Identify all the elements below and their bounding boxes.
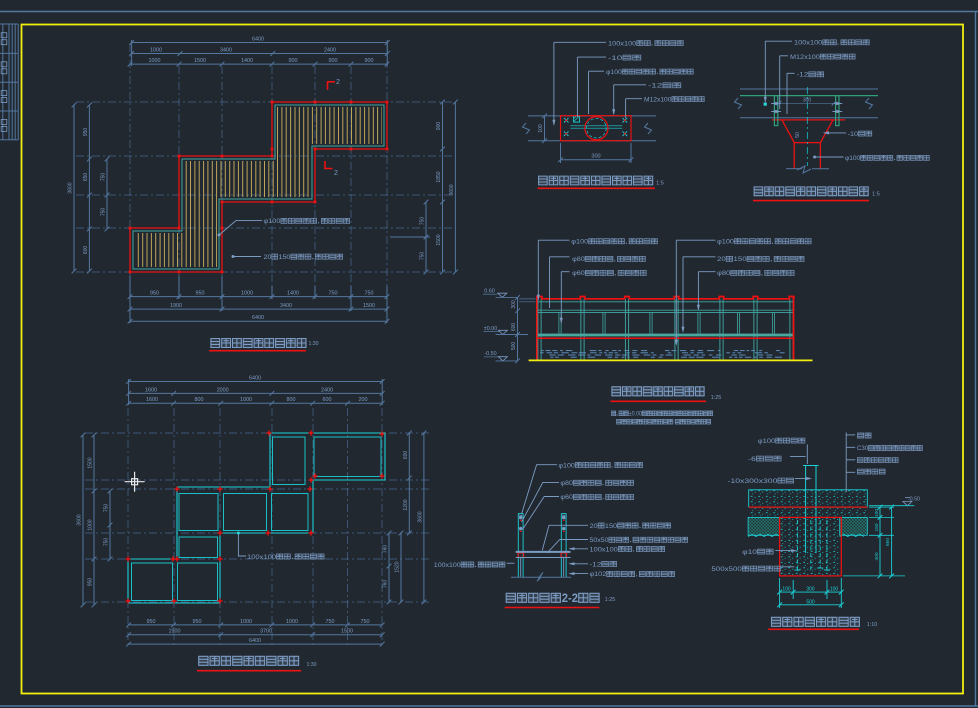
bridge deck plank band (537, 334, 794, 337)
svg-text:950: 950 (83, 128, 89, 137)
bridge red outline (537, 297, 794, 361)
svg-text:760: 760 (383, 580, 389, 589)
detail-elev title (754, 187, 868, 196)
svg-text:3600: 3600 (77, 514, 83, 525)
detail-plan pipe circle (585, 117, 608, 140)
plank hatch of deck (134, 100, 382, 274)
svg-text:±0.00: ±0.00 (629, 411, 642, 417)
svg-text:900: 900 (436, 122, 442, 131)
foundation label F2 (748, 456, 781, 463)
section title (506, 593, 599, 605)
svg-text:750: 750 (104, 538, 110, 547)
svg-text:1520: 1520 (395, 561, 401, 572)
svg-text:φ100: φ100 (717, 239, 734, 246)
foundation title (772, 617, 860, 626)
plan2 bottom dimensions (129, 624, 383, 626)
plan2 beam cells (273, 437, 306, 485)
svg-text:900: 900 (365, 58, 374, 64)
detail-plan break marks (523, 123, 530, 134)
svg-text:900: 900 (329, 58, 338, 64)
deck outline (red) (130, 102, 387, 272)
svg-text:800: 800 (195, 397, 204, 403)
svg-text:0.60: 0.60 (484, 288, 495, 294)
svg-text:φ100: φ100 (264, 218, 281, 225)
svg-text:500: 500 (511, 342, 517, 351)
svg-text:750: 750 (101, 208, 107, 217)
elevation note line2 (617, 419, 711, 424)
detail-plan label5 (644, 96, 704, 103)
svg-text:φ80: φ80 (572, 256, 585, 263)
svg-text:1500: 1500 (88, 457, 94, 468)
foundation underline (768, 628, 859, 630)
plan2 grid centerlines (127, 408, 129, 648)
foundation label F1 (758, 438, 805, 445)
svg-text:950: 950 (147, 619, 156, 625)
detail-plan bolts (564, 118, 569, 123)
svg-text:1:30: 1:30 (306, 662, 316, 668)
svg-text:±0.00: ±0.00 (484, 326, 497, 332)
svg-text:1200: 1200 (403, 499, 409, 510)
detail-elev plate left (green) (774, 96, 777, 126)
svg-text:3600: 3600 (68, 182, 74, 193)
foundation label F7 (857, 469, 885, 474)
svg-text:950: 950 (196, 291, 205, 297)
svg-text:20: 20 (717, 256, 726, 263)
svg-text:750: 750 (420, 252, 426, 261)
plan label text 1 (264, 218, 350, 225)
foundation gravel left (748, 517, 780, 535)
svg-text:150: 150 (734, 256, 747, 263)
svg-text:750: 750 (326, 619, 335, 625)
elevation level dim column (517, 297, 519, 361)
svg-text:1600: 1600 (146, 397, 158, 403)
elev label L3 (572, 270, 646, 277)
svg-text:750: 750 (420, 217, 426, 226)
svg-text:φ100: φ100 (558, 462, 575, 469)
section label5 (590, 537, 688, 544)
svg-text:750: 750 (101, 173, 107, 182)
detail-elev beam lines (740, 88, 878, 90)
foundation label F4 (858, 433, 872, 438)
svg-text:6400: 6400 (252, 37, 264, 43)
svg-text:-10x300x300: -10x300x300 (728, 478, 778, 485)
svg-text:1500: 1500 (436, 234, 442, 245)
foundation rebar (796, 520, 798, 570)
section label7 (590, 561, 617, 568)
elev label R3 (717, 270, 794, 277)
svg-text:750: 750 (365, 291, 374, 297)
detail-elev bolts (771, 103, 781, 105)
svg-text:150: 150 (605, 523, 618, 530)
detail-elev label4 (848, 131, 872, 138)
svg-text:100: 100 (830, 587, 839, 593)
svg-text:750: 750 (329, 291, 338, 297)
section mark 2 upper (328, 82, 336, 90)
plan title underline (209, 350, 306, 352)
section label8 (590, 571, 675, 578)
plan grid centerlines (178, 66, 180, 299)
foundation label F8 (742, 549, 773, 556)
svg-text:100: 100 (874, 509, 880, 517)
svg-text:50: 50 (795, 132, 801, 138)
svg-text:3700: 3700 (260, 629, 272, 635)
plan2 left dimensions (82, 435, 84, 605)
elev label L2 (572, 256, 645, 263)
bridge balusters (558, 312, 560, 333)
detail-plan red frame (561, 116, 632, 141)
right viewport line (975, 12, 977, 707)
svg-text:650: 650 (885, 538, 891, 546)
svg-text:M12x100: M12x100 (790, 54, 820, 61)
svg-text:1:30: 1:30 (308, 341, 318, 347)
detail-elev label1 (794, 40, 869, 47)
svg-text:2000: 2000 (217, 387, 229, 393)
svg-text:1000: 1000 (240, 619, 252, 625)
svg-text:1500: 1500 (363, 303, 375, 309)
svg-text:1500: 1500 (341, 629, 353, 635)
svg-text:1000: 1000 (150, 48, 162, 54)
svg-text:φ80: φ80 (717, 270, 731, 277)
elev label L1 (571, 239, 657, 246)
foundation block (780, 517, 842, 576)
svg-text:φ100: φ100 (845, 155, 861, 162)
svg-text:φ10: φ10 (742, 549, 757, 556)
section label6 (590, 546, 665, 553)
detail-elev pipe (red) (793, 143, 795, 169)
section underline (505, 607, 600, 609)
detail-elev plate right (green) (836, 96, 839, 126)
svg-text:1850: 1850 (436, 171, 442, 182)
svg-text:150: 150 (874, 523, 880, 531)
section label2 (560, 480, 633, 487)
svg-text:3600: 3600 (449, 184, 455, 195)
svg-text:-12: -12 (590, 561, 602, 568)
svg-text:1400: 1400 (241, 58, 253, 64)
svg-text:600: 600 (511, 323, 517, 332)
svg-text:300: 300 (591, 154, 600, 160)
svg-text:-10: -10 (848, 131, 859, 138)
foundation right dims (879, 507, 881, 576)
svg-text:6400: 6400 (249, 638, 261, 644)
detail-elev break marks (735, 98, 742, 109)
svg-text:2400: 2400 (324, 48, 336, 54)
svg-text:1900: 1900 (170, 303, 182, 309)
svg-text:φ100: φ100 (758, 438, 776, 445)
svg-text:1000: 1000 (241, 291, 253, 297)
elevation title (612, 387, 704, 396)
svg-text:3600: 3600 (417, 511, 423, 522)
svg-text:M12x100: M12x100 (644, 96, 672, 103)
plan right dimensions (425, 202, 427, 272)
elevation underline (610, 400, 706, 402)
detail-plan title (539, 176, 653, 185)
svg-text:50x50: 50x50 (590, 537, 609, 544)
svg-text:2-2: 2-2 (562, 593, 578, 605)
top viewport line (0, 11, 978, 13)
foundation pipe (805, 466, 807, 554)
svg-text:500x500: 500x500 (711, 566, 742, 573)
svg-text:1000: 1000 (88, 519, 94, 530)
svg-text:φ60: φ60 (572, 270, 585, 277)
svg-text:6400: 6400 (249, 376, 261, 382)
bridge deck red line (537, 337, 794, 339)
svg-text:-12: -12 (797, 72, 809, 79)
svg-text:950: 950 (150, 291, 159, 297)
svg-text:650: 650 (83, 173, 89, 182)
svg-text:400: 400 (874, 552, 880, 560)
section break line (511, 572, 571, 581)
svg-text:3400: 3400 (280, 303, 292, 309)
foundation water band (749, 490, 868, 507)
detail-plan steel plate (cyan) (570, 125, 622, 127)
foundation label F3 (728, 478, 794, 485)
ground yellow line (529, 359, 813, 361)
plan2 junction markers (125, 556, 130, 561)
bridge red cap right (789, 296, 793, 298)
detail-plan leaders (553, 42, 555, 124)
svg-text:750: 750 (361, 619, 370, 625)
deck corner markers (129, 227, 132, 230)
plan2 label leader (238, 533, 246, 556)
left title block table (0, 24, 18, 140)
detail-elev red bearing line (772, 119, 845, 121)
svg-text:C30: C30 (857, 445, 869, 452)
svg-text:φ102: φ102 (590, 571, 607, 578)
svg-text:-10: -10 (608, 55, 623, 62)
svg-text:2: 2 (336, 79, 340, 86)
svg-text:φ100: φ100 (606, 69, 622, 76)
detail-elev label2 (790, 54, 855, 61)
detail-plan underline (538, 187, 656, 189)
plan2 right dimensions (388, 533, 390, 602)
detail-plan gusset hatch block (574, 116, 580, 122)
svg-text:200: 200 (359, 397, 368, 403)
svg-text:2: 2 (334, 170, 338, 177)
detail-plan label1 (608, 40, 683, 47)
svg-text:1:5: 1:5 (872, 192, 880, 198)
detail-elev pipe break (797, 166, 811, 173)
svg-text:φ100: φ100 (571, 239, 588, 246)
svg-text:φ80: φ80 (560, 480, 573, 487)
section leaders (522, 465, 557, 514)
detail-plan label2 (608, 55, 641, 62)
detail-elev pipe centerline (806, 87, 808, 166)
svg-text:150: 150 (279, 254, 291, 261)
bottom viewport line (0, 705, 978, 707)
svg-text:300: 300 (803, 97, 812, 103)
plan label leader 1 (219, 221, 262, 235)
svg-text:1000: 1000 (149, 58, 161, 64)
svg-text:1600: 1600 (145, 387, 157, 393)
detail-elev label5 (845, 155, 929, 162)
svg-text:-0.50: -0.50 (484, 351, 496, 357)
plan title (211, 339, 306, 348)
svg-text:1500: 1500 (194, 58, 206, 64)
elevation leaders (538, 239, 569, 241)
detail-elev taper (red) (782, 120, 833, 143)
svg-text:1:25: 1:25 (605, 597, 616, 603)
svg-text:600: 600 (83, 246, 89, 255)
detail-elev underline (753, 200, 869, 202)
foundation label F9 (711, 566, 780, 573)
svg-text:600: 600 (403, 451, 409, 460)
svg-text:100x100: 100x100 (794, 40, 823, 47)
water dashes (541, 350, 544, 352)
detail-plan label4 (648, 83, 681, 90)
plan label text 2 (264, 254, 343, 261)
svg-text:3400: 3400 (220, 48, 232, 54)
plan2 underline (197, 670, 301, 672)
plan2 top dimensions (129, 381, 383, 383)
bridge red outline overlay (537, 297, 794, 361)
svg-text:300: 300 (511, 300, 517, 309)
section left label (434, 562, 505, 569)
plan label leader 2 (233, 256, 261, 258)
svg-text:300: 300 (806, 587, 815, 593)
section label1 (558, 462, 642, 469)
svg-text:1000: 1000 (286, 619, 298, 625)
plan2 title (199, 656, 299, 665)
section label4 (590, 523, 671, 530)
detail-elev label3 (797, 72, 824, 79)
svg-text:1000: 1000 (240, 397, 252, 403)
section label3 (560, 494, 633, 501)
plan left dimensions (73, 105, 75, 271)
svg-text:500: 500 (806, 599, 815, 605)
plan2 label (247, 554, 324, 561)
svg-text:900: 900 (289, 58, 298, 64)
section posts (517, 514, 519, 578)
detail-elev leaders (764, 41, 766, 101)
bridge rails (538, 301, 793, 303)
svg-text:20: 20 (264, 254, 272, 261)
svg-text:100x100: 100x100 (434, 562, 461, 569)
detail-plan dims (544, 116, 546, 141)
bridge posts (537, 299, 539, 339)
svg-text:1400: 1400 (287, 291, 299, 297)
foundation water top red line (749, 506, 868, 508)
svg-text:-12: -12 (648, 83, 663, 90)
mouse crosshair (125, 472, 145, 492)
svg-text:20: 20 (590, 523, 599, 530)
svg-text:750: 750 (104, 504, 110, 513)
foundation label F6 (857, 458, 898, 463)
detail-elev wale line (green) (740, 95, 878, 97)
svg-text:1900: 1900 (169, 629, 181, 635)
svg-text:1:5: 1:5 (656, 181, 664, 187)
svg-text:1:10: 1:10 (867, 622, 878, 628)
svg-text:6400: 6400 (252, 315, 264, 321)
svg-text:2400: 2400 (321, 387, 333, 393)
svg-text:φ60: φ60 (560, 494, 573, 501)
foundation bottom dims (779, 578, 781, 608)
svg-text:100: 100 (782, 587, 791, 593)
elevation note line1 (612, 411, 713, 417)
svg-text:100x100: 100x100 (247, 554, 276, 561)
svg-text:-6: -6 (748, 456, 756, 463)
foundation slab stipple (749, 507, 868, 517)
foundation label F5 (857, 445, 922, 452)
svg-text:950: 950 (88, 578, 94, 587)
plan top dimensions (132, 42, 388, 44)
svg-text:100x100: 100x100 (590, 546, 619, 553)
section mark 2 lower (325, 161, 333, 169)
foundation gravel wavy bottom (748, 534, 780, 536)
svg-text:100x100: 100x100 (608, 40, 637, 47)
foundation leaders (806, 444, 808, 464)
detail-plan label3 (606, 69, 693, 76)
svg-text:800: 800 (287, 397, 296, 403)
elev label R2 (717, 256, 804, 263)
plan2 outline (cyan) (128, 433, 385, 603)
svg-text:760: 760 (383, 545, 389, 554)
foundation gravel right (840, 517, 868, 535)
svg-text:1:25: 1:25 (711, 395, 722, 401)
elev label R1 (717, 239, 811, 246)
svg-text:950: 950 (193, 619, 202, 625)
detail-plan beam lines (528, 115, 656, 117)
svg-text:100: 100 (538, 124, 544, 133)
plan bottom dimensions (130, 296, 387, 298)
svg-text:600: 600 (323, 397, 332, 403)
deck inner edge (cyan) (133, 105, 384, 269)
section deck lines (516, 551, 571, 553)
